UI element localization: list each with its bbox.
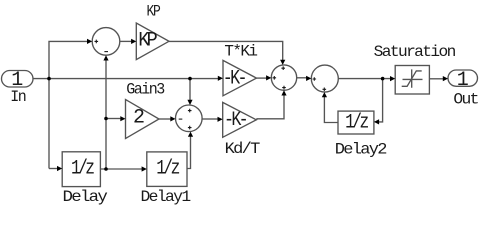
arrowhead into Sum4 top bbox=[187, 100, 192, 105]
saturation icon curve bbox=[402, 71, 422, 86]
wire Sum3 to Saturation bbox=[338, 78, 391, 80]
wire Sum1 to KP bbox=[120, 40, 132, 42]
svg-text:KP: KP bbox=[138, 30, 157, 53]
junction dot at Gain3 tap bbox=[104, 117, 108, 121]
sign plus Sum1 left bbox=[95, 40, 99, 44]
junction dot at Saturation input bbox=[381, 77, 385, 81]
gain block T*Ki (-K- triangle) bbox=[223, 60, 257, 95]
junction dot at main line x=190 bbox=[188, 77, 192, 81]
svg-text:Delay1: Delay1 bbox=[141, 188, 191, 206]
arrowhead into Sum4 bottom bbox=[188, 132, 193, 137]
sign minus Sum1 bottom bbox=[104, 51, 108, 53]
svg-text:Delay2: Delay2 bbox=[335, 141, 387, 159]
arrowhead into Sum1 left bbox=[87, 39, 92, 44]
svg-text:Out: Out bbox=[453, 91, 478, 109]
wire riser bottom into Delay bbox=[49, 168, 58, 170]
arrowhead into Sum3 bottom bbox=[322, 92, 327, 97]
wire riser at x=49 up to Sum1 and down to Delay bbox=[49, 41, 88, 168]
gain block Kd/T (-K- triangle) bbox=[223, 102, 257, 137]
junction dot at Delay output bbox=[104, 167, 108, 171]
gain block Gain3 (value 2 triangle) bbox=[126, 100, 160, 139]
wire tap to Gain3 input bbox=[106, 118, 121, 120]
svg-text:-K-: -K- bbox=[223, 68, 245, 91]
wire KP to Sum2 top bbox=[169, 41, 283, 60]
svg-text:1/z: 1/z bbox=[156, 158, 179, 181]
sign minus Sum4 left bbox=[179, 118, 183, 120]
svg-text:1/z: 1/z bbox=[71, 158, 94, 181]
arrowhead into Out bbox=[443, 76, 448, 81]
arrowhead into Gain3 bbox=[120, 116, 125, 121]
wire Gain Kd/T to Sum2 bottom bbox=[256, 95, 284, 119]
arrowhead into Delay1 bbox=[142, 166, 147, 171]
svg-text:Kd/T: Kd/T bbox=[225, 140, 260, 158]
wire Gain3 to Sum4 left bbox=[159, 118, 171, 120]
arrowhead into Gain Kd/T bbox=[218, 117, 223, 122]
wire Sum2 to Sum3 bbox=[297, 77, 307, 79]
svg-text:T*Ki: T*Ki bbox=[224, 42, 257, 60]
svg-text:1/z: 1/z bbox=[345, 112, 368, 135]
wire In to Gain T*Ki (main error line) bbox=[33, 78, 218, 80]
wire feedback from Saturation input down into Delay2 bbox=[379, 79, 383, 122]
delay block Delay1 (1/z) bbox=[147, 152, 187, 187]
wire Saturation to Out bbox=[429, 78, 443, 80]
sign plus Sum2 left bbox=[273, 76, 277, 80]
arrowhead into Sum3 left bbox=[306, 76, 311, 81]
wire Delay1 output up to Sum4 bottom bbox=[187, 136, 191, 169]
arrowhead into Sum2 top bbox=[280, 60, 285, 65]
arrowhead into Delay bbox=[57, 166, 62, 171]
sum block Sum2 bbox=[271, 65, 296, 90]
wire Delay to Delay1 bbox=[100, 168, 142, 170]
junction dot at riser x=49 bbox=[47, 77, 51, 81]
output port Out (oval) bbox=[448, 70, 478, 86]
arrowhead into Saturation bbox=[390, 76, 395, 81]
wire main line down to Sum4 top bbox=[189, 79, 191, 100]
delay block Delay (1/z) bbox=[62, 152, 100, 187]
arrowhead into Sum4 left bbox=[170, 116, 175, 121]
svg-text:Delay: Delay bbox=[63, 188, 109, 206]
wire Delay2 output to Sum3 bottom bbox=[324, 97, 338, 123]
sum block Sum3 bbox=[311, 65, 338, 92]
sign plus Sum4 top bbox=[188, 109, 192, 113]
delay block Delay2 (1/z, mirrored) bbox=[338, 111, 374, 134]
sign plus Sum2 top bbox=[281, 66, 285, 70]
arrowhead into Sum2 left bbox=[266, 75, 271, 80]
saturation block bbox=[395, 66, 429, 95]
saturation icon axes bbox=[403, 69, 423, 87]
gain block KP (triangle) bbox=[136, 23, 169, 60]
wire Gain T*Ki to Sum2 left bbox=[257, 77, 267, 79]
svg-text:-K-: -K- bbox=[224, 109, 246, 132]
sign plus Sum3 bottom bbox=[323, 88, 327, 92]
sign plus Sum3 left bbox=[313, 77, 317, 81]
input port In (oval) bbox=[2, 71, 34, 88]
arrowhead into Gain T*Ki bbox=[218, 76, 223, 81]
svg-text:In: In bbox=[10, 88, 26, 106]
sign plus Sum2 bottom bbox=[282, 86, 286, 90]
svg-text:Saturation: Saturation bbox=[374, 43, 456, 61]
sign plus Sum4 bottom bbox=[188, 126, 192, 130]
arrowhead into KP bbox=[131, 39, 136, 44]
wire Delay output up to Sum1 minus and tap to Gain3 bbox=[105, 60, 107, 169]
sum block Sum4 (derivative sum) bbox=[176, 105, 203, 132]
wire Sum4 to Gain Kd/T bbox=[202, 118, 218, 120]
svg-text:2: 2 bbox=[133, 107, 145, 130]
arrowhead into Delay2 right side bbox=[374, 119, 379, 124]
arrowhead into Sum2 bottom bbox=[281, 90, 286, 95]
arrowhead into Sum1 bottom bbox=[103, 55, 108, 60]
svg-text:1: 1 bbox=[457, 69, 469, 92]
svg-text:KP: KP bbox=[147, 3, 161, 21]
sum block Sum1 bbox=[92, 28, 120, 56]
svg-text:Gain3: Gain3 bbox=[126, 80, 164, 98]
